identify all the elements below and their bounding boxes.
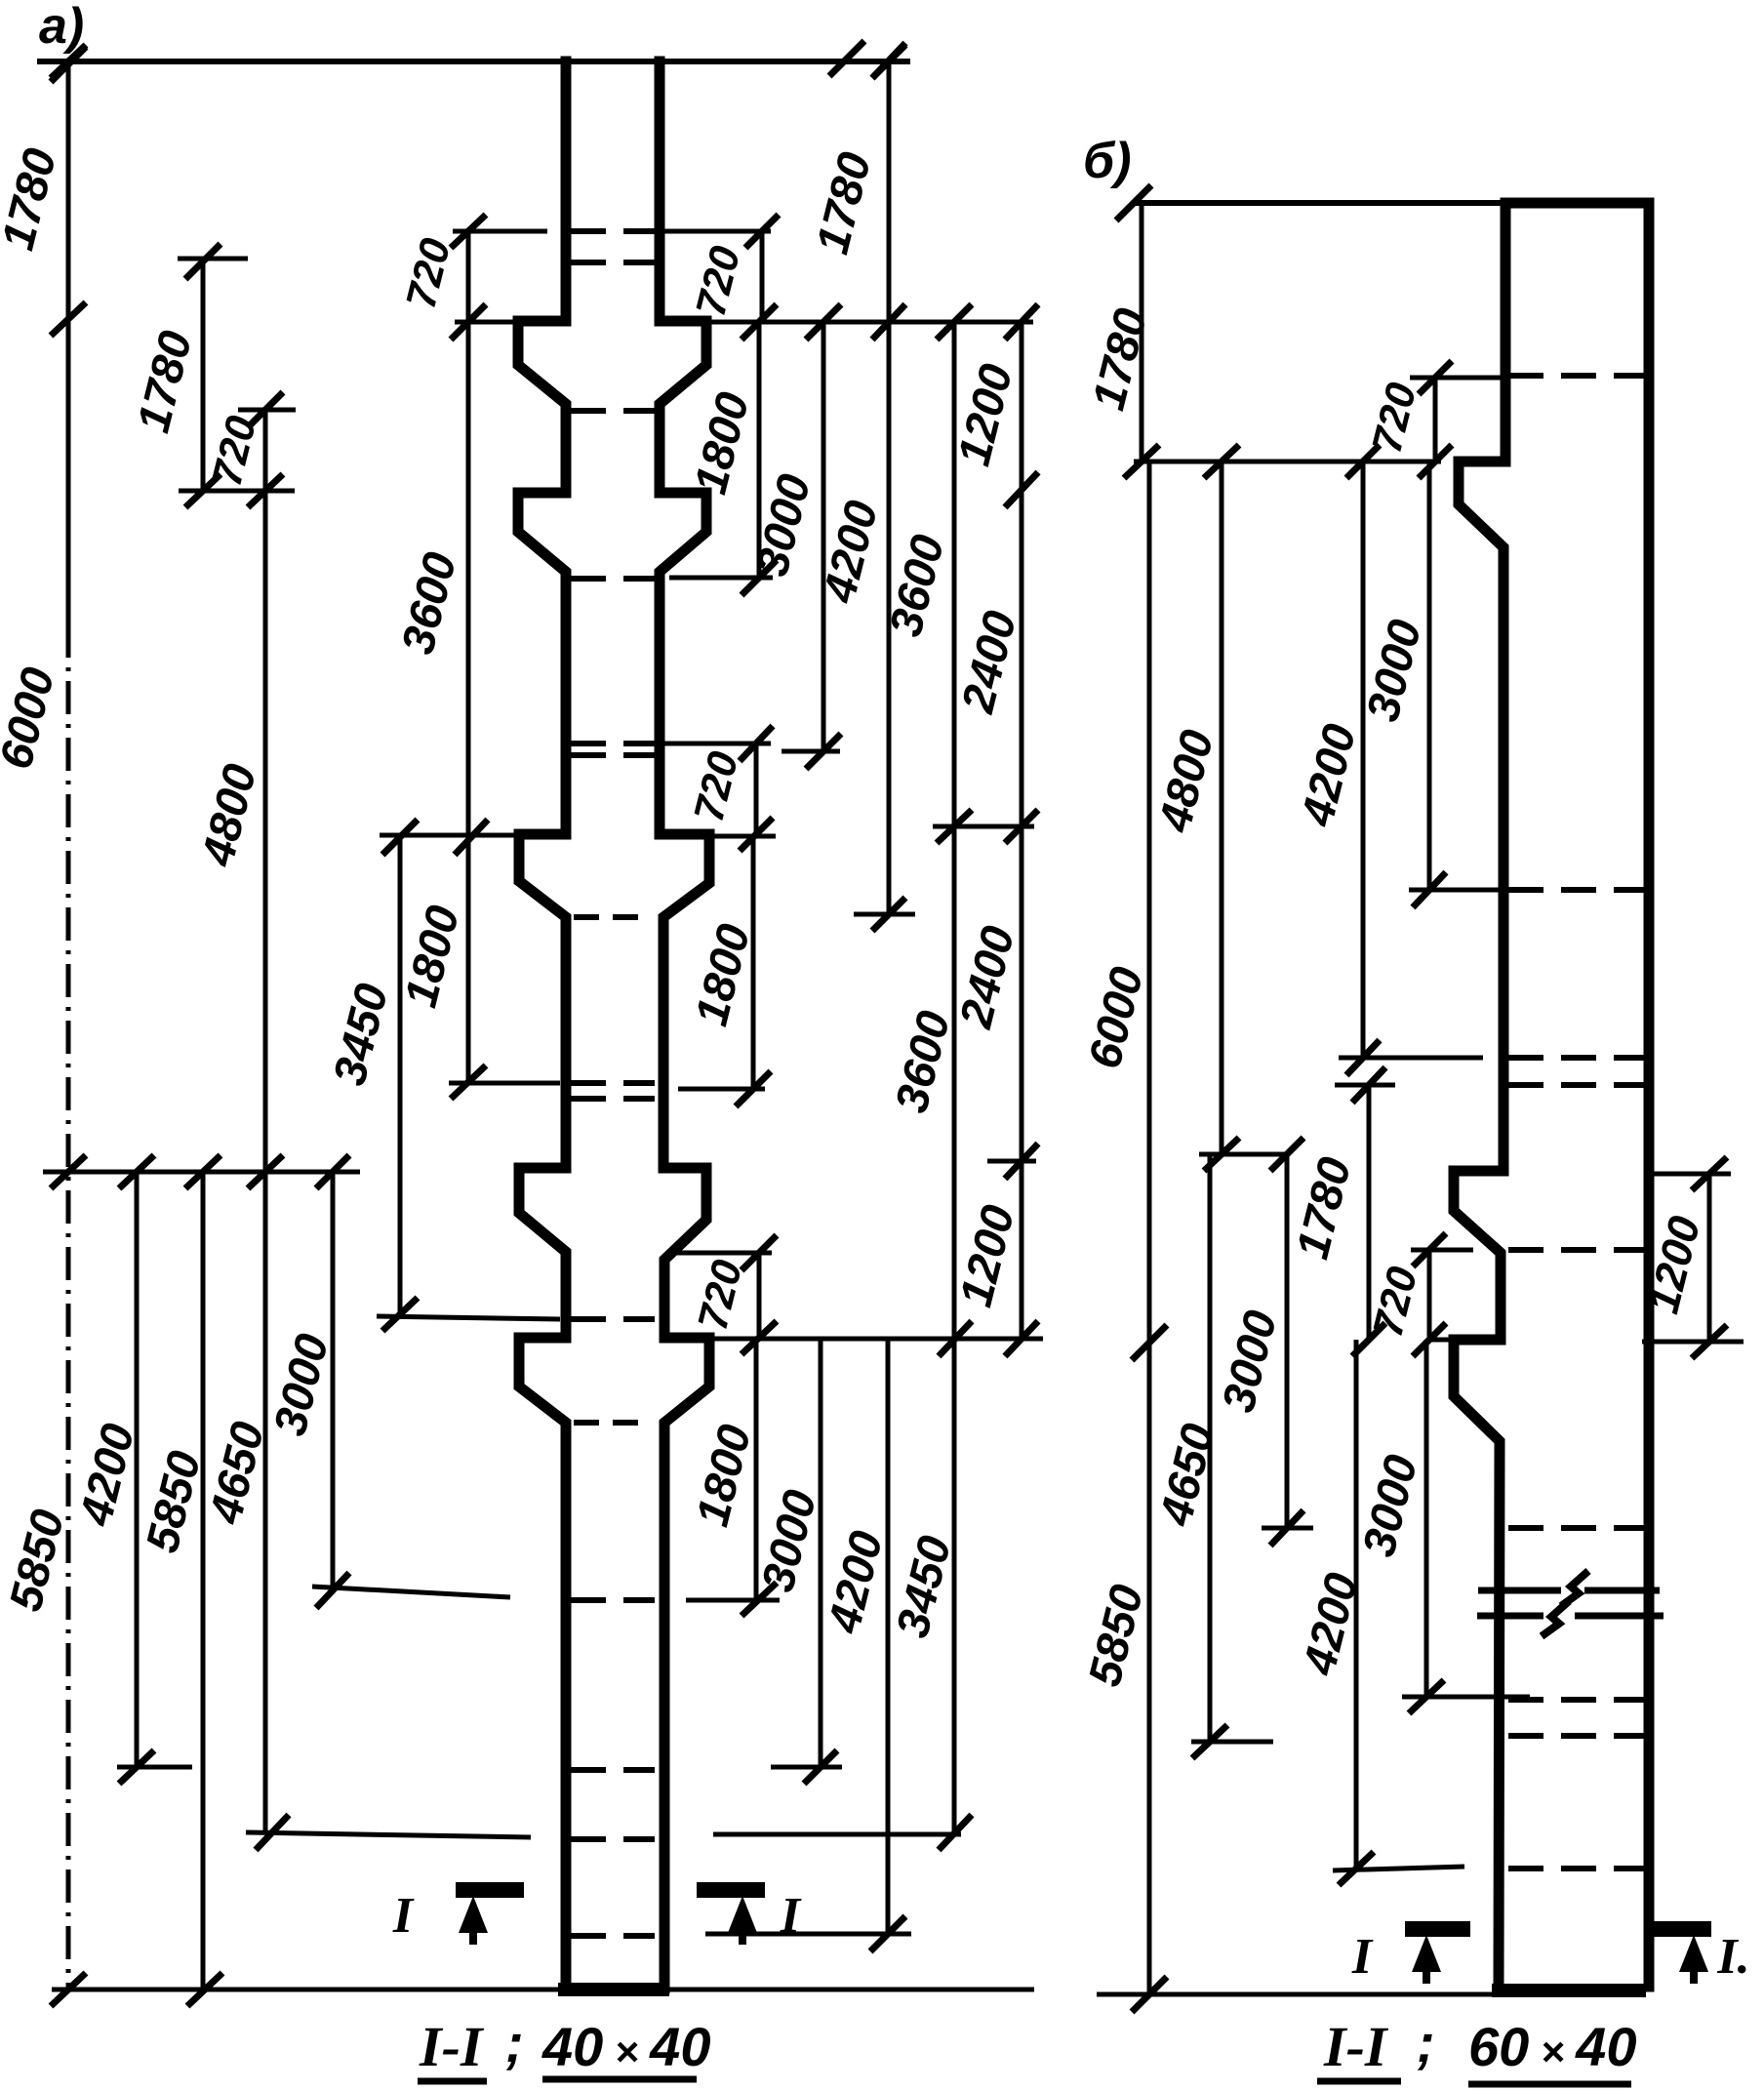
ext line B y387	[1410, 376, 1504, 381]
dim line A right x778 seg1	[760, 231, 765, 322]
ext line B y1112	[1335, 1083, 1395, 1088]
column B dashed line b break 6b	[1508, 1733, 1644, 1739]
ext line A y1109	[449, 1081, 560, 1086]
dim line A left x341	[331, 1172, 336, 1590]
dim line B x1752	[1707, 1174, 1712, 1342]
column B dashed line b break 6a	[1508, 1697, 1644, 1703]
column B break symbol	[1478, 1588, 1561, 1594]
ext line A y1190	[987, 1159, 1036, 1164]
ext line B y1785	[1191, 1740, 1273, 1745]
column B top line thick	[1505, 198, 1651, 209]
dim line A right x778 seg5	[757, 1253, 762, 1338]
ext line B y1373	[1428, 1338, 1501, 1343]
ext line B y1079	[1339, 1056, 1483, 1061]
column A corbel 3 left	[519, 834, 566, 1168]
ext line A y1347	[377, 1316, 560, 1319]
ext line A y1639 right	[686, 1598, 780, 1603]
column A dashed line break 8	[571, 1933, 655, 1939]
dim line A right x911 mid	[887, 322, 892, 914]
ext line B y1375 right	[1642, 1340, 1744, 1345]
column A left edge upper	[561, 61, 572, 321]
column B dashed line b break 7	[1508, 1866, 1644, 1871]
column A right edge upper	[655, 61, 665, 321]
datum line A y330 right	[709, 320, 1033, 325]
ext line A y1372 right	[709, 1337, 1043, 1342]
svg-text:I-I: I-I	[419, 2015, 485, 2078]
column A dashed line corbel1 soffit	[571, 408, 655, 414]
ext line A y265	[178, 257, 248, 261]
ext line A y762	[663, 742, 771, 746]
datum line A bottom	[52, 1988, 1034, 1992]
column A corbel 4 left	[519, 1168, 566, 1338]
column A corbel 1 left	[518, 321, 566, 493]
column A dashed line break 5	[571, 1597, 655, 1603]
datum line B y473	[1134, 460, 1441, 464]
column B dashed line b break 3b	[1508, 1082, 1644, 1088]
ext line A y1811 right	[771, 1765, 842, 1770]
column A dashed line break 3b	[571, 1096, 655, 1102]
section arrow B right	[1651, 1921, 1711, 1937]
column A dashed line break 2b	[571, 752, 655, 758]
column B dashed line b break 1	[1508, 373, 1644, 379]
svg-text:а): а)	[39, 0, 84, 55]
column A dashed line break 1b	[571, 260, 655, 265]
dim line B x1397	[1361, 462, 1366, 1058]
svg-text:I: I	[780, 1888, 802, 1944]
svg-text:I: I	[392, 1888, 415, 1944]
column A top line	[37, 59, 910, 64]
dim line A right x911 lower	[886, 1338, 891, 1934]
svg-text:;: ;	[505, 2012, 524, 2073]
dim line A left x208 lower	[201, 1172, 206, 1990]
dim line A right x844 lower	[819, 1338, 823, 1767]
svg-text:I.: I.	[1716, 1929, 1749, 1985]
column B dashed line b break 4	[1508, 1247, 1644, 1253]
datum line A y1201	[43, 1170, 360, 1175]
ext line A y937	[854, 912, 915, 917]
dim line A right x911 top	[887, 60, 892, 322]
ext line A y330 left	[455, 320, 518, 325]
column A dashed line break 2a	[571, 741, 655, 746]
column B dashed line b break 5	[1508, 1525, 1644, 1531]
ext line A y855 right	[709, 834, 776, 839]
column A dashed line corbel5 soffit dash	[574, 1420, 652, 1426]
column B left edge upper	[1501, 203, 1511, 462]
dim line B x1170	[1140, 203, 1144, 462]
ext line A y1284	[672, 1251, 772, 1256]
dim line A right x844	[822, 322, 826, 751]
dim line A left x208 upper	[201, 261, 206, 491]
svg-text:I-I: I-I	[1323, 2015, 1389, 2078]
column A corbel 5 left	[519, 1338, 566, 1989]
dim line A right x775 seg3	[754, 744, 759, 834]
ext line A y855	[380, 833, 514, 838]
dim line A left x480	[466, 231, 471, 1082]
ext line B y1183	[1199, 1152, 1289, 1157]
dim line B x1319	[1285, 1154, 1290, 1528]
column A corbel 3 right	[660, 834, 709, 1168]
column B base	[1492, 1984, 1646, 1997]
dim line A right x775 seg6	[754, 1338, 759, 1599]
ext line B y1281	[1411, 1248, 1473, 1253]
ext line B y1566	[1262, 1526, 1313, 1531]
column A dashed line break 1a	[571, 228, 655, 234]
ext line A y592	[669, 576, 773, 581]
section arrow A right	[697, 1882, 765, 1898]
column A corbel 5 right	[664, 1338, 709, 1989]
dim line A right x772 seg4	[751, 834, 756, 1089]
dim line B x1465 seg2	[1427, 462, 1432, 890]
dim line B x1465 seg1	[1433, 378, 1438, 462]
dim line A right x778 seg2	[757, 323, 762, 578]
ext line A y237 right	[660, 229, 771, 234]
datum line B bottom	[1097, 1992, 1644, 1997]
ext line B y1203 right	[1644, 1172, 1731, 1177]
ext line B y1915	[1333, 1867, 1464, 1870]
dim line B x1252	[1220, 462, 1224, 1154]
ext line A y237 left	[453, 229, 547, 234]
column A dashed line break 3a	[571, 1080, 655, 1086]
column B corbel 2 left	[1454, 1171, 1503, 1340]
column A dashed line corbel3 soffit dash	[574, 914, 652, 920]
ext line A y1116	[678, 1087, 765, 1092]
ext line A y1811 left	[117, 1765, 192, 1770]
svg-text:I: I	[1351, 1929, 1374, 1985]
dim line A right x978	[952, 322, 957, 1832]
column A base	[558, 1983, 669, 1996]
dim line A left outer x70	[66, 61, 71, 624]
dim line B x1403	[1367, 1085, 1372, 1340]
ext line A y420	[238, 408, 296, 413]
ext line A y1982 right	[705, 1932, 911, 1937]
dim line A left x410	[398, 834, 403, 1314]
dim line B x1465 seg3	[1427, 1250, 1432, 1340]
ext line A y1878 right	[713, 1832, 961, 1837]
ext line A y770	[782, 749, 840, 754]
column A dashed line break 4	[571, 1316, 655, 1322]
column A corbel 4 right	[663, 1168, 706, 1338]
dim line A right x1047	[1020, 322, 1024, 1339]
ext line A y1878 left	[246, 1832, 531, 1837]
dim line A left x140	[135, 1172, 140, 1767]
section arrow A left	[456, 1882, 524, 1898]
ext line A y503	[179, 489, 295, 494]
column A corbel 2 left	[518, 493, 566, 834]
column B dashed line b break 2	[1508, 887, 1644, 893]
ext line A y1630	[312, 1587, 510, 1597]
ext line B y1739	[1402, 1695, 1530, 1700]
dim line A left x272	[263, 410, 268, 1832]
dim line B x1178	[1147, 462, 1152, 1994]
dim line B x1240	[1208, 1154, 1213, 1742]
column B dashed line b break 3a	[1508, 1055, 1644, 1061]
column B corbel 3 left	[1454, 1340, 1501, 1987]
column A dashed line break 7	[571, 1836, 655, 1842]
column B right edge	[1644, 203, 1655, 1987]
column A corbel 2 right	[660, 493, 706, 834]
ext line B y912	[1409, 888, 1504, 893]
column B corbel 1 left	[1459, 462, 1505, 1171]
column A dashed line corbel2 soffit	[571, 576, 655, 582]
column A corbel 1 right	[660, 321, 706, 493]
dim line B x1462 seg4	[1424, 1340, 1429, 1697]
dim line B x1390	[1354, 1340, 1359, 1869]
ext line A y847	[933, 824, 1034, 829]
column A dashed line break 6	[571, 1767, 655, 1773]
svg-text:;: ;	[1417, 2012, 1435, 2073]
svg-text:б): б)	[1083, 133, 1132, 189]
column B top line	[1132, 200, 1651, 206]
section arrow B left	[1405, 1921, 1470, 1937]
